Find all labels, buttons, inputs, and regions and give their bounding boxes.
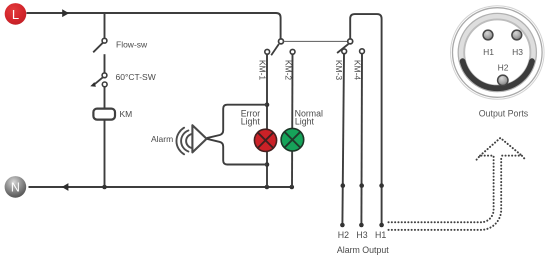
KM-4 terminal circle (360, 49, 365, 54)
svg-text:H2: H2 (498, 63, 509, 73)
contactor coil KM (93, 109, 115, 120)
svg-text:KM-3: KM-3 (334, 60, 344, 81)
svg-text:L: L (12, 7, 19, 22)
junction dot on KM-4 column (359, 183, 364, 188)
node B (feed node for KM-3/KM-4) (348, 39, 353, 44)
wire KM-4 column (360, 54, 363, 225)
node A (feed node for KM-1/KM-2) (279, 39, 284, 44)
wire KM-2 column (291, 54, 294, 187)
alarm horn (speaker) (192, 125, 206, 152)
svg-text:H2: H2 (338, 230, 349, 240)
terminal dot H2 (340, 223, 345, 228)
wire KM-3 column (342, 54, 344, 225)
dashed arrow (alarm output to ports) (389, 138, 526, 230)
wire alarm upper branch (207, 105, 267, 138)
svg-text:Light: Light (295, 117, 315, 127)
wire KM-1 column (266, 54, 268, 187)
wire (104, 87, 106, 109)
wire (104, 120, 106, 187)
wire (104, 54, 106, 73)
junction dot (bottom rail end / KM-2 column) (290, 185, 295, 190)
junction dot on KM-3 column (341, 183, 346, 188)
output port connector (451, 6, 545, 100)
svg-text:H1: H1 (375, 230, 386, 240)
svg-text:KM: KM (120, 109, 133, 119)
svg-text:Alarm Output: Alarm Output (337, 245, 389, 255)
pin H1 (483, 30, 493, 40)
junction dot (KM branch / bottom rail) (102, 185, 107, 190)
svg-text:Flow-sw: Flow-sw (116, 40, 148, 50)
KM-3 switch blade (337, 44, 348, 53)
indicator lamp Error Light (254, 129, 276, 151)
indicator lamp Normal Light (281, 128, 304, 151)
junction dot (KM-1 column / bottom rail) (265, 185, 270, 190)
svg-text:H1: H1 (483, 47, 494, 57)
svg-text:H3: H3 (512, 47, 523, 57)
terminal dot H3 (359, 223, 364, 228)
pin H3 (512, 30, 522, 40)
bypass wire (inverted U to H1) (350, 14, 381, 225)
top rail wire (27, 13, 281, 39)
pin H2 (498, 75, 508, 85)
right arrow on top rail (62, 9, 69, 17)
svg-text:N: N (11, 181, 20, 195)
svg-text:Light: Light (241, 117, 261, 127)
svg-text:60°CT-SW: 60°CT-SW (116, 72, 156, 82)
junction dot (alarm upper branch) (265, 102, 270, 107)
L terminal (5, 3, 27, 25)
junction dot (alarm lower branch) (265, 162, 270, 167)
junction dot on H1 column (379, 183, 384, 188)
terminal dot H1 (379, 223, 384, 228)
KM-1 switch blade (271, 44, 279, 55)
left arrow on bottom rail (62, 183, 69, 191)
wire node link (284, 40, 348, 42)
N terminal (5, 176, 27, 198)
wire branch from top rail (104, 13, 106, 38)
switch 60°CT-SW (thermal) (90, 73, 107, 87)
svg-text:Alarm: Alarm (151, 134, 173, 144)
switch Flow-sw (93, 38, 107, 52)
wire alarm lower branch (207, 139, 267, 165)
KM-3 terminal circle (342, 49, 347, 54)
KM-2 terminal circle (290, 49, 295, 54)
bottom rail wire (29, 186, 292, 188)
svg-text:Output Ports: Output Ports (479, 109, 529, 119)
alarm sound waves (176, 128, 192, 155)
KM-1 terminal circle (265, 49, 270, 54)
svg-text:H3: H3 (356, 230, 367, 240)
